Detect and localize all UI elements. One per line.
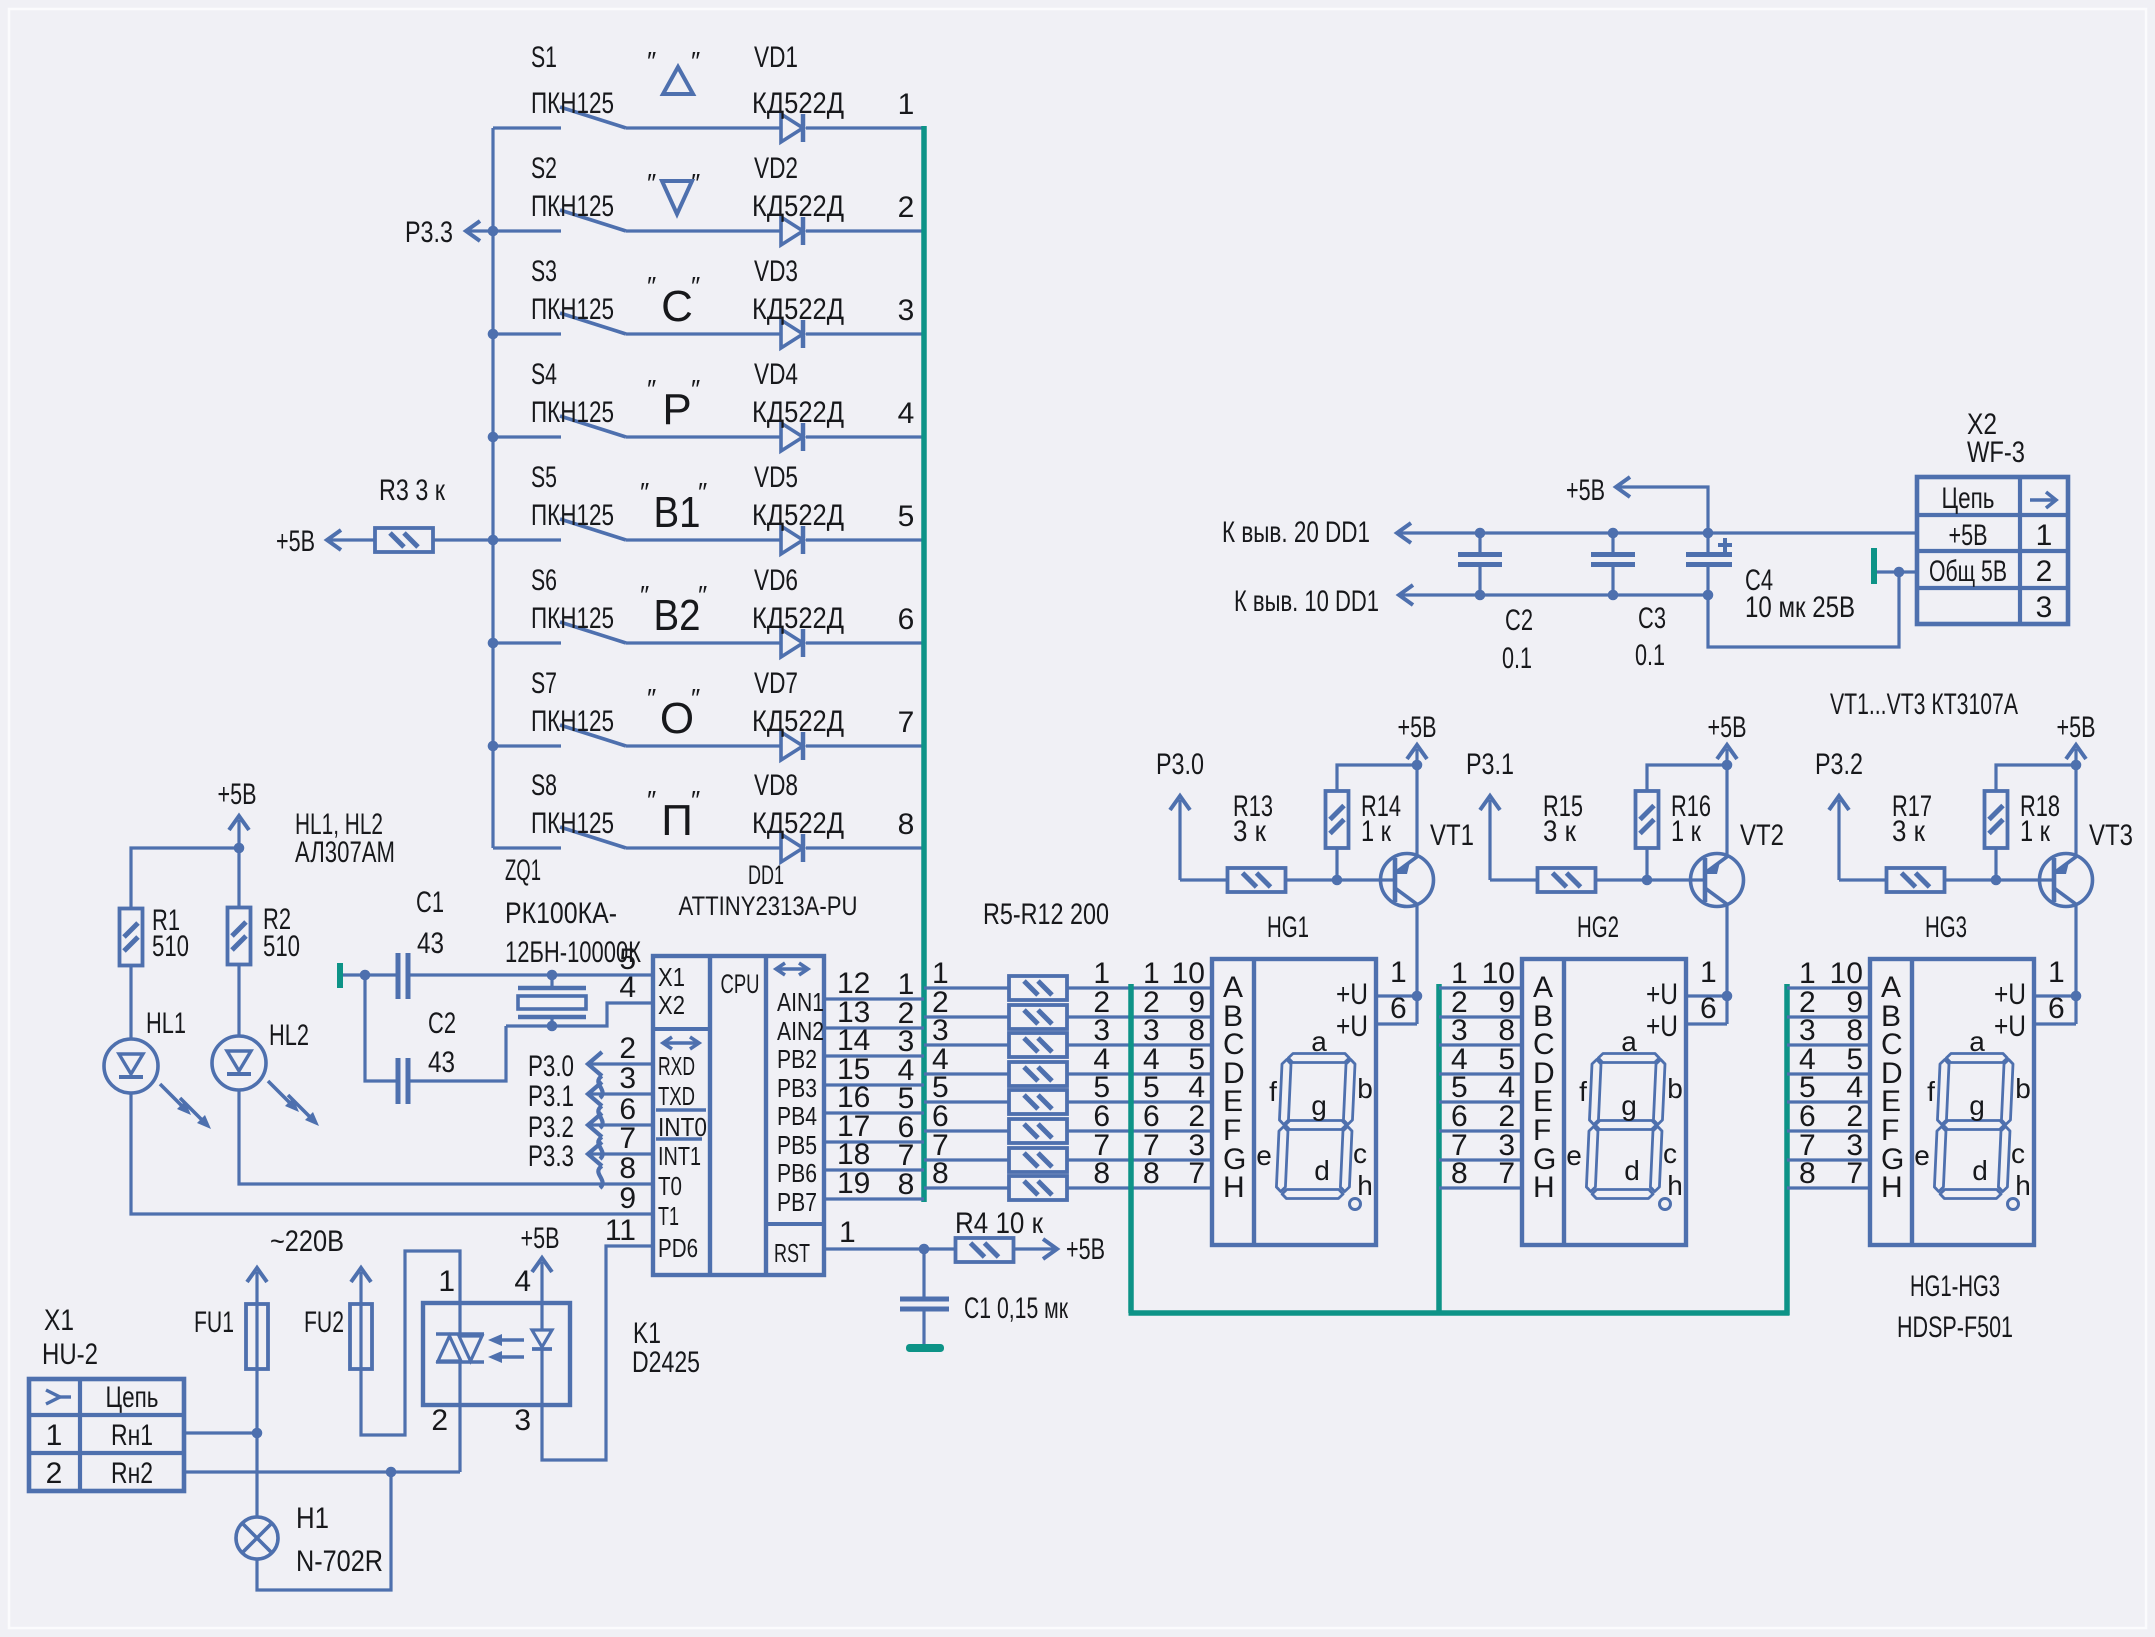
svg-text:43: 43 <box>417 927 444 960</box>
svg-text:2: 2 <box>898 191 915 224</box>
resistor R4 10 к <box>955 1207 1044 1262</box>
svg-text:f: f <box>1927 1076 1935 1107</box>
pin 9 T1 label <box>619 1182 679 1231</box>
symbol bidirectional arrow right column <box>776 967 808 971</box>
wire <box>924 986 1009 989</box>
wire S8 row <box>493 846 561 849</box>
junction <box>547 1021 558 1032</box>
svg-text:0.1: 0.1 <box>1635 639 1665 672</box>
switch S8 ПКН125 <box>531 769 626 848</box>
svg-text:a: a <box>1969 1026 1985 1057</box>
svg-text:7: 7 <box>898 706 915 739</box>
label button name С <box>647 271 700 331</box>
svg-text:+5В: +5В <box>521 1222 560 1255</box>
capacitor C1 43 <box>398 886 444 999</box>
wire <box>1439 1129 1522 1132</box>
svg-text:9: 9 <box>619 1182 636 1215</box>
pin 16 PB4 <box>777 1081 870 1131</box>
svg-text:8: 8 <box>932 1157 949 1190</box>
svg-text:1: 1 <box>438 1265 455 1298</box>
bus teal vertical 2 <box>1128 984 1134 1313</box>
wire collector <box>1415 904 1418 1024</box>
pin 6 +U of HG1 <box>1336 992 1407 1043</box>
svg-text:Цепь: Цепь <box>1942 482 1995 515</box>
svg-text:3: 3 <box>619 1062 636 1095</box>
pin 19 PB7 <box>777 1167 870 1217</box>
wire Общ 5В pin <box>1877 570 1917 573</box>
fuse FU1 <box>194 1304 268 1369</box>
svg-text:f: f <box>1269 1076 1277 1107</box>
wire <box>824 1168 924 1171</box>
wire <box>1439 1186 1522 1189</box>
svg-text:+U: +U <box>1336 978 1368 1011</box>
svg-text:VD5: VD5 <box>754 461 798 494</box>
junction <box>1703 590 1714 601</box>
resistor R5 <box>1009 976 1067 1000</box>
svg-text:PB3: PB3 <box>777 1073 817 1103</box>
svg-text:ПКН125: ПКН125 <box>531 396 614 429</box>
svg-text:6: 6 <box>898 603 915 636</box>
pin 11 PD6 label <box>605 1214 698 1263</box>
pin 12 AIN1 <box>777 967 870 1017</box>
svg-text:TXD: TXD <box>658 1081 695 1111</box>
svg-text:S7: S7 <box>531 667 557 700</box>
node +5В arrow HL <box>218 778 257 848</box>
wire <box>1787 986 1870 989</box>
wire Rн1 <box>184 1431 257 1434</box>
node P3.3 arrow <box>405 216 493 249</box>
svg-text:+5В: +5В <box>218 778 257 811</box>
svg-text:H: H <box>1533 1171 1555 1204</box>
svg-text:КД522Д: КД522Д <box>752 602 844 635</box>
wire Rн2 <box>184 1470 460 1473</box>
resistor R11 <box>1009 1148 1067 1172</box>
svg-text:КД522Д: КД522Д <box>752 396 844 429</box>
wire <box>1067 1129 1212 1132</box>
svg-text:+5В: +5В <box>2057 711 2096 744</box>
ground <box>906 1344 944 1352</box>
svg-text:VT1...VT3 КТ3107А: VT1...VT3 КТ3107А <box>1830 688 2018 721</box>
wire <box>1067 1158 1212 1161</box>
connector X1 HU-2 table <box>29 1304 184 1491</box>
svg-text:VT2: VT2 <box>1740 819 1784 852</box>
switch S6 ПКН125 <box>531 564 626 643</box>
svg-text:VD6: VD6 <box>754 564 798 597</box>
svg-text:1: 1 <box>46 1419 63 1452</box>
svg-text:R3 3 к: R3 3 к <box>379 474 446 507</box>
pin 1 RST <box>774 1216 856 1268</box>
node Р3.0 port arrow <box>1156 748 1204 880</box>
light arrows inside K1 <box>488 1334 524 1363</box>
svg-text:Rн1: Rн1 <box>111 1419 153 1452</box>
junction <box>1722 760 1733 771</box>
svg-text:К выв. 10 DD1: К выв. 10 DD1 <box>1234 585 1379 618</box>
svg-text:2: 2 <box>619 1032 636 1065</box>
svg-text:+5В: +5В <box>1566 474 1605 507</box>
node Р3.0 port arrow <box>528 1050 653 1098</box>
junction <box>1722 991 1733 1002</box>
wire <box>1067 1100 1212 1103</box>
svg-text:Р3.3: Р3.3 <box>528 1140 574 1173</box>
svg-text:КД522Д: КД522Д <box>752 807 844 840</box>
svg-text:В1: В1 <box>654 488 701 537</box>
svg-text:7: 7 <box>1188 1157 1205 1190</box>
svg-text:Х1: Х1 <box>44 1304 74 1337</box>
resistor R2 510 <box>228 903 301 965</box>
wire <box>1439 1158 1522 1161</box>
diode VD8 КД522Д <box>752 769 844 862</box>
node К выв. 20 DD1 arrow <box>1222 516 1411 549</box>
node +5В arrow VT1 <box>1398 711 1437 765</box>
svg-text:10 мк 25В: 10 мк 25В <box>1745 591 1855 624</box>
svg-text:S3: S3 <box>531 255 557 288</box>
svg-text:c: c <box>1663 1138 1677 1169</box>
wire <box>1067 1186 1212 1189</box>
label button name В1 <box>640 477 707 537</box>
svg-text:+5В: +5В <box>1398 711 1437 744</box>
svg-text:″: ″ <box>647 168 656 198</box>
svg-text:Р3.1: Р3.1 <box>1466 748 1514 781</box>
svg-text:PB7: PB7 <box>777 1187 817 1217</box>
svg-text:HG3: HG3 <box>1925 911 1967 944</box>
wire +5В to R2 <box>237 848 240 906</box>
resistor R1 510 <box>120 904 190 966</box>
transistor VT1 КТ3107А <box>1381 819 1475 907</box>
junction <box>488 329 499 340</box>
svg-text:7: 7 <box>1846 1157 1863 1190</box>
svg-text:PB5: PB5 <box>777 1130 817 1160</box>
switch S5 ПКН125 <box>531 461 626 540</box>
svg-text:В2: В2 <box>654 591 701 640</box>
svg-text:С3: С3 <box>1638 602 1666 635</box>
svg-text:С2: С2 <box>428 1007 456 1040</box>
wire K1 pin 3 to PD6 <box>542 1246 653 1460</box>
triac inside K1 <box>436 1303 484 1405</box>
wire S7 row <box>493 744 561 747</box>
wire lamp loop <box>257 1472 391 1590</box>
svg-text:7: 7 <box>619 1122 636 1155</box>
junction <box>386 1467 397 1478</box>
svg-text:3: 3 <box>514 1404 531 1437</box>
svg-text:КД522Д: КД522Д <box>752 499 844 532</box>
wire R top to +5В <box>1994 848 1997 880</box>
pin 6 +U of HG2 <box>1646 992 1717 1043</box>
seven-segment digit of HG3 <box>1914 1026 2031 1210</box>
svg-text:HL1: HL1 <box>146 1007 186 1040</box>
label button name Р <box>647 374 700 434</box>
pin 15 PB3 <box>777 1053 870 1103</box>
svg-text:4: 4 <box>898 397 915 430</box>
node Р3.3 port arrow <box>528 1140 653 1188</box>
resistor R3 3 к <box>375 474 493 552</box>
svg-text:1 к: 1 к <box>1671 815 1702 848</box>
wire S1 row <box>493 126 561 129</box>
wire <box>1787 1129 1870 1132</box>
wire <box>1945 878 2054 881</box>
wire <box>1067 1072 1212 1075</box>
wire <box>824 1140 924 1143</box>
svg-text:3 к: 3 к <box>1543 815 1577 848</box>
node +5В arrow left of R3 <box>276 525 375 558</box>
svg-text:РК100КА-: РК100КА- <box>505 897 617 930</box>
node +5В arrow K1 pin 4 <box>521 1222 560 1303</box>
wire base row <box>1180 878 1227 881</box>
pin 6 INT0 label <box>619 1093 707 1142</box>
svg-text:RST: RST <box>774 1238 810 1268</box>
svg-text:HG1-HG3: HG1-HG3 <box>1910 1270 2000 1303</box>
label button name ∇ <box>647 168 700 214</box>
svg-text:b: b <box>2015 1073 2031 1104</box>
pin 7 INT1 label <box>619 1122 701 1171</box>
svg-text:HG1: HG1 <box>1267 911 1309 944</box>
svg-text:КД522Д: КД522Д <box>752 87 844 120</box>
svg-text:КД522Д: КД522Д <box>752 293 844 326</box>
label button name Δ <box>647 46 700 94</box>
diode VD3 КД522Д <box>752 255 844 348</box>
svg-text:d: d <box>1972 1155 1988 1186</box>
switch S1 ПКН125 <box>531 41 626 128</box>
svg-text:ПКН125: ПКН125 <box>531 499 614 532</box>
svg-text:R4 10 к: R4 10 к <box>955 1207 1044 1240</box>
svg-text:+5В: +5В <box>276 525 315 558</box>
seven-segment digit of HG2 <box>1566 1026 1683 1210</box>
pin 1 +U of HG3 <box>1994 956 2065 1011</box>
wire <box>1787 1043 1870 1046</box>
svg-text:PB2: PB2 <box>777 1044 817 1074</box>
svg-text:ПКН125: ПКН125 <box>531 705 614 738</box>
svg-text:3: 3 <box>898 294 915 327</box>
svg-text:С1 0,15 мк: С1 0,15 мк <box>964 1292 1069 1325</box>
svg-text:g: g <box>1969 1090 1985 1121</box>
junction <box>488 226 499 237</box>
junction <box>488 535 499 546</box>
svg-text:1: 1 <box>898 88 915 121</box>
svg-text:Цепь: Цепь <box>106 1381 159 1414</box>
svg-text:3: 3 <box>2036 591 2053 624</box>
diode VD2 КД522Д <box>752 152 844 245</box>
svg-text:1: 1 <box>1700 956 1717 989</box>
resistor R6 <box>1009 1005 1067 1029</box>
wire Общ row <box>1399 593 1708 596</box>
node Р3.1 port arrow <box>528 1080 653 1128</box>
svg-text:ПКН125: ПКН125 <box>531 190 614 223</box>
wire <box>1439 1015 1522 1018</box>
wire <box>924 1043 1009 1046</box>
connector X2 WF-3 table <box>1917 408 2068 624</box>
bus teal vertical 4 <box>1784 984 1790 1315</box>
wire <box>255 1369 258 1517</box>
display HG3 box <box>1870 911 2034 1245</box>
wire <box>824 997 924 1000</box>
svg-text:Rн2: Rн2 <box>111 1457 153 1490</box>
label button name В2 <box>640 580 707 640</box>
junction <box>547 970 558 981</box>
node ~220В arrow FU1 <box>247 1268 267 1304</box>
bus teal vertical 1 <box>921 126 927 1202</box>
svg-text:VD3: VD3 <box>754 255 798 288</box>
junction <box>1703 528 1714 539</box>
wire <box>824 1054 924 1057</box>
junction <box>1412 991 1423 1002</box>
junction <box>1412 760 1423 771</box>
svg-text:c: c <box>2011 1138 2025 1169</box>
overline INT0 <box>656 1108 706 1111</box>
svg-text:ПКН125: ПКН125 <box>531 293 614 326</box>
wire <box>824 1026 924 1029</box>
svg-text:Р: Р <box>662 385 691 434</box>
pin 1 +U of HG1 <box>1336 956 1407 1011</box>
svg-text:g: g <box>1621 1090 1637 1121</box>
svg-text:H: H <box>1223 1171 1245 1204</box>
junction <box>488 638 499 649</box>
svg-text:3 к: 3 к <box>1892 815 1926 848</box>
svg-text:К выв. 20 DD1: К выв. 20 DD1 <box>1222 516 1370 549</box>
svg-text:R5-R12 200: R5-R12 200 <box>983 898 1109 931</box>
svg-text:b: b <box>1667 1073 1683 1104</box>
wire <box>237 966 240 1036</box>
svg-text:ПКН125: ПКН125 <box>531 87 614 120</box>
resistor R7 <box>1009 1033 1067 1057</box>
junction <box>1642 875 1653 886</box>
wire base row <box>1490 878 1537 881</box>
svg-text:11: 11 <box>605 1214 636 1247</box>
svg-text:510: 510 <box>263 930 300 963</box>
relay K1 D2425 box <box>423 1303 700 1405</box>
svg-text:e: e <box>1256 1140 1272 1171</box>
wire <box>824 1083 924 1086</box>
svg-text:a: a <box>1621 1026 1637 1057</box>
switch S7 ПКН125 <box>531 667 626 746</box>
svg-text:PB6: PB6 <box>777 1158 817 1188</box>
capacitor C4 10 мк 25В polarized <box>1686 533 1855 624</box>
capacitor C1 0,15 мк <box>900 1249 1069 1345</box>
svg-text:8: 8 <box>619 1152 636 1185</box>
capacitor C3 0.1 <box>1591 533 1666 672</box>
wire S6 row <box>493 641 561 644</box>
pin 2 RXD label <box>619 1032 695 1081</box>
svg-text:С2: С2 <box>1505 604 1533 637</box>
LED HL2 <box>212 1019 319 1126</box>
svg-text:+U: +U <box>1336 1010 1368 1043</box>
resistor R16 1 к <box>1636 790 1712 848</box>
svg-text:h: h <box>2015 1170 2031 1201</box>
wire <box>824 1111 924 1114</box>
svg-text:ZQ1: ZQ1 <box>505 854 541 887</box>
svg-text:+5В: +5В <box>1949 519 1988 552</box>
junction <box>488 741 499 752</box>
wire <box>924 1158 1009 1161</box>
wire collector <box>1725 904 1728 1024</box>
svg-text:f: f <box>1579 1076 1587 1107</box>
svg-text:ПКН125: ПКН125 <box>531 602 614 635</box>
svg-text:DD1: DD1 <box>748 860 784 890</box>
fuse FU2 <box>304 1304 372 1369</box>
wire <box>1787 1015 1870 1018</box>
svg-text:h: h <box>1357 1170 1373 1201</box>
pin 17 PB5 <box>777 1110 870 1160</box>
switch S3 ПКН125 <box>531 255 626 334</box>
switch S2 ПКН125 <box>531 152 626 231</box>
svg-text:Р3.0: Р3.0 <box>1156 748 1204 781</box>
svg-text:d: d <box>1314 1155 1330 1186</box>
wire <box>129 967 132 1039</box>
svg-text:О: О <box>660 694 694 743</box>
LED HL1 <box>104 1007 211 1129</box>
svg-text:PD6: PD6 <box>658 1233 698 1263</box>
junction <box>1475 590 1486 601</box>
svg-text:h: h <box>1667 1170 1683 1201</box>
svg-text:8: 8 <box>1093 1157 1110 1190</box>
svg-text:e: e <box>1914 1140 1930 1171</box>
wire +5В row <box>1397 531 1917 534</box>
resistor R13 3 к <box>1228 790 1286 892</box>
junction <box>1608 590 1619 601</box>
wire S3 row <box>493 332 561 335</box>
svg-text:5: 5 <box>898 500 915 533</box>
svg-text:VD8: VD8 <box>754 769 798 802</box>
svg-text:″: ″ <box>640 477 649 507</box>
crystal ZQ1 РК100КА-12БН-10000К <box>505 854 641 1017</box>
svg-text:D2425: D2425 <box>632 1346 700 1379</box>
svg-text:″: ″ <box>691 374 700 404</box>
svg-text:+U: +U <box>1646 1010 1678 1043</box>
svg-text:ATTINY2313A-PU: ATTINY2313A-PU <box>679 891 858 921</box>
svg-text:19: 19 <box>837 1167 870 1200</box>
svg-text:12БН-10000К: 12БН-10000К <box>505 936 641 969</box>
wire crystal stubs <box>550 975 553 988</box>
svg-text:П: П <box>661 796 693 845</box>
lamp H1 N-702R <box>236 1502 383 1578</box>
svg-text:″: ″ <box>647 46 656 76</box>
seven-segment digit of HG1 <box>1256 1026 1373 1210</box>
svg-text:CPU: CPU <box>721 969 760 999</box>
svg-text:+U: +U <box>1646 978 1678 1011</box>
pin 8 T0 label <box>619 1152 682 1201</box>
wire collector <box>2074 904 2077 1024</box>
junction <box>1608 528 1619 539</box>
svg-text:VD7: VD7 <box>754 667 798 700</box>
wire base row <box>1839 878 1886 881</box>
svg-text:S5: S5 <box>531 461 557 494</box>
svg-text:1: 1 <box>1390 956 1407 989</box>
svg-text:HG2: HG2 <box>1577 911 1619 944</box>
svg-text:S8: S8 <box>531 769 557 802</box>
resistor R15 3 к <box>1538 790 1596 892</box>
svg-text:″: ″ <box>647 785 656 815</box>
label button name О <box>647 683 700 743</box>
capacitor C2 0.1 <box>1458 533 1533 675</box>
svg-text:FU2: FU2 <box>304 1306 344 1339</box>
junction <box>1332 875 1343 886</box>
wire emitter <box>1725 765 1728 857</box>
svg-text:+5В: +5В <box>1708 711 1747 744</box>
svg-text:7: 7 <box>1498 1157 1515 1190</box>
junction <box>234 843 245 854</box>
wire X1 row <box>343 973 396 976</box>
svg-text:X1: X1 <box>658 962 685 992</box>
svg-text:a: a <box>1311 1026 1327 1057</box>
svg-text:КД522Д: КД522Д <box>752 190 844 223</box>
wire R top to +5В <box>1335 848 1338 880</box>
svg-text:3 к: 3 к <box>1233 815 1267 848</box>
wire RST <box>824 1247 955 1250</box>
wire <box>1067 1015 1212 1018</box>
pin 4 X2 label <box>619 971 685 1020</box>
node +5В arrow RST <box>1014 1233 1105 1266</box>
junction <box>1991 875 2002 886</box>
wire <box>1439 1072 1522 1075</box>
LED inside K1 <box>532 1303 552 1405</box>
